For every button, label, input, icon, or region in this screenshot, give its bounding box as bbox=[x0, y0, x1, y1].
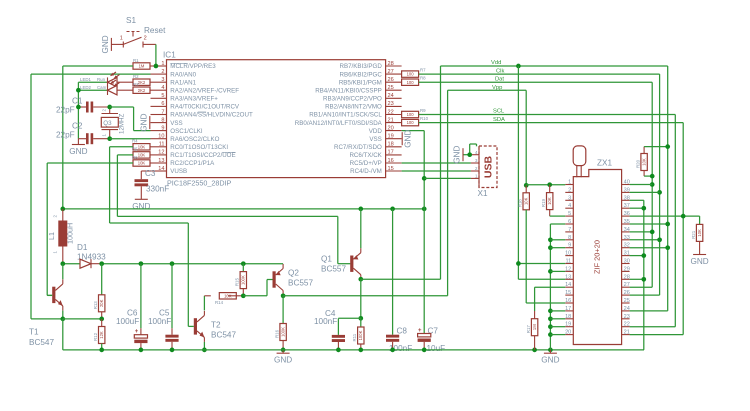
junction R19 top bbox=[547, 182, 552, 187]
svg-text:1: 1 bbox=[568, 180, 571, 186]
ground below R16 bbox=[274, 350, 292, 365]
wire main GND rail bbox=[63, 349, 644, 351]
ground below C3 bbox=[132, 199, 150, 211]
svg-text:5: 5 bbox=[161, 93, 164, 99]
wire emitter node down to GND rail bbox=[62, 319, 64, 350]
junction Q2 collector bbox=[281, 293, 286, 298]
resistor R14 10K bbox=[204, 293, 243, 305]
svg-text:13: 13 bbox=[565, 274, 571, 280]
svg-text:36: 36 bbox=[624, 211, 630, 217]
svg-text:GND: GND bbox=[404, 130, 413, 148]
wire ZIF pin33 Clk bbox=[630, 239, 660, 241]
junction gnd rail bbox=[139, 348, 144, 353]
inductor L1 100uH bbox=[47, 209, 75, 264]
junction gnd rail bbox=[390, 348, 395, 353]
transistor T1 BC547 bbox=[29, 264, 63, 347]
svg-text:X1: X1 bbox=[478, 189, 488, 198]
resistor R9 100 (SCL) bbox=[402, 108, 427, 118]
svg-text:21: 21 bbox=[388, 117, 394, 123]
junction gnd rail bbox=[422, 348, 427, 353]
svg-text:28: 28 bbox=[624, 274, 630, 280]
resistor R15 100K bbox=[235, 264, 247, 296]
svg-text:37: 37 bbox=[624, 203, 630, 209]
svg-text:VDD: VDD bbox=[369, 128, 383, 135]
svg-text:Reset: Reset bbox=[144, 26, 166, 35]
wire gnd bus to pin bbox=[550, 247, 565, 249]
wire T1 base stub bbox=[47, 294, 52, 296]
wire to Q2 base bbox=[243, 280, 272, 296]
wire T2 collector to R14 bbox=[203, 296, 205, 311]
svg-text:OSC1/CLKI: OSC1/CLKI bbox=[170, 128, 203, 135]
transistor Q1 BC557 bbox=[321, 248, 361, 279]
resistor R11 100K bbox=[352, 318, 364, 350]
junction Vdd pin35 bbox=[665, 222, 670, 227]
svg-text:17: 17 bbox=[565, 306, 571, 312]
svg-text:9: 9 bbox=[161, 125, 164, 131]
svg-text:1: 1 bbox=[120, 36, 123, 42]
svg-text:+: + bbox=[418, 328, 422, 334]
svg-text:27: 27 bbox=[624, 282, 630, 288]
svg-text:R14: R14 bbox=[215, 300, 224, 305]
svg-text:24: 24 bbox=[624, 306, 630, 312]
wire ZIF pin31 gnd bbox=[630, 255, 644, 257]
svg-text:RC2/CCP1/P1A: RC2/CCP1/P1A bbox=[170, 160, 215, 167]
wire emitter node to R13/R12 junction bbox=[63, 318, 102, 320]
capacitor C5 100nF bbox=[148, 264, 179, 350]
resistor R13 20K bbox=[93, 264, 105, 319]
wire ZIF pin39 to Clk bbox=[630, 191, 660, 193]
junction T2 emitter rail bbox=[202, 348, 207, 353]
resistor R21 10K to GND bbox=[691, 216, 703, 254]
svg-text:38: 38 bbox=[624, 195, 630, 201]
svg-text:27: 27 bbox=[388, 69, 394, 75]
svg-text:R19: R19 bbox=[541, 198, 546, 207]
wire net Vpp bridge bbox=[448, 90, 527, 185]
junction pin1 bbox=[154, 64, 159, 69]
svg-text:RB3/AN9/CCP2/VPO: RB3/AN9/CCP2/VPO bbox=[323, 96, 382, 103]
op-amp U? -- IC1 PIC18F2550 body bbox=[167, 60, 386, 178]
wire ZIF pin40 to Dat bbox=[630, 184, 653, 186]
svg-text:MCLR/VPP/RE3: MCLR/VPP/RE3 bbox=[170, 63, 216, 70]
svg-text:20K: 20K bbox=[99, 299, 104, 307]
capacitor C3 330nF at VUSB bbox=[135, 169, 170, 199]
wire RC1 pin12 to Q1 base bbox=[117, 155, 350, 264]
junction gnd rail bbox=[99, 348, 104, 353]
svg-text:10uF: 10uF bbox=[427, 344, 446, 353]
svg-text:20: 20 bbox=[388, 125, 394, 131]
svg-text:GND: GND bbox=[101, 35, 110, 53]
wire gnd bus to pin bbox=[550, 310, 565, 312]
junction USB shield bbox=[467, 152, 472, 157]
svg-text:26: 26 bbox=[388, 77, 394, 83]
capacitor C1 22pF bbox=[56, 97, 110, 115]
svg-text:12MHZ: 12MHZ bbox=[119, 113, 126, 134]
IC1 left pin stubs and numbers bbox=[151, 61, 253, 175]
svg-text:R9: R9 bbox=[420, 108, 426, 113]
junction R13/R12 bbox=[99, 317, 104, 322]
ground at VSS pin8 bbox=[139, 113, 150, 131]
svg-text:PIC18F2550_28DIP: PIC18F2550_28DIP bbox=[167, 179, 232, 188]
junction VDD pin20 rail bbox=[422, 207, 427, 212]
svg-text:39: 39 bbox=[624, 187, 630, 193]
wire gnd bus to pin bbox=[550, 239, 565, 241]
svg-text:RC0/T1OSO/T13CKI: RC0/T1OSO/T13CKI bbox=[170, 144, 228, 151]
svg-text:R6: R6 bbox=[132, 155, 138, 160]
wire crystal bottom to OSC2 pin10 bbox=[110, 138, 151, 140]
wire net Clk bbox=[419, 74, 660, 295]
junction Vdd pin11/13 bbox=[516, 261, 521, 266]
wire Q1 emitter to rail bbox=[360, 209, 362, 248]
junction gnd bus bbox=[548, 309, 553, 314]
resistor R18 10K (Vpp to ZIF16) bbox=[518, 185, 566, 303]
svg-text:Cam: Cam bbox=[97, 85, 107, 90]
ground at USB pin4 bbox=[453, 146, 464, 164]
junction gnd bus bbox=[548, 324, 553, 329]
ZIF left pin stubs and numbers bbox=[565, 180, 573, 336]
resistor R1 1M bbox=[133, 58, 151, 69]
svg-text:RC5/D+/VP: RC5/D+/VP bbox=[350, 160, 382, 167]
svg-text:RA4/T0CKI/C1OUT/RCV: RA4/T0CKI/C1OUT/RCV bbox=[170, 104, 240, 111]
svg-text:23: 23 bbox=[388, 101, 394, 107]
svg-text:22: 22 bbox=[388, 109, 394, 115]
svg-text:RA1/AN1: RA1/AN1 bbox=[170, 79, 196, 86]
resistor R7 100 (PGC) bbox=[402, 68, 427, 78]
svg-text:330nF: 330nF bbox=[146, 185, 169, 194]
svg-text:9: 9 bbox=[568, 243, 571, 249]
junction Q1 emitter rail bbox=[358, 207, 363, 212]
svg-text:R4: R4 bbox=[132, 139, 138, 144]
junction R16 gnd rail bbox=[281, 348, 286, 353]
svg-text:18: 18 bbox=[388, 142, 394, 148]
svg-text:R3: R3 bbox=[133, 82, 139, 87]
junction gnd rail bbox=[170, 348, 175, 353]
junction gnd rail bbox=[548, 348, 553, 353]
junction gnd rail bbox=[336, 348, 341, 353]
svg-text:11: 11 bbox=[159, 142, 165, 148]
wire gnd bus to pin bbox=[550, 270, 565, 272]
svg-text:15: 15 bbox=[565, 290, 571, 296]
socket ZX1 ZIF 20+20 body bbox=[573, 146, 621, 345]
connector X1 USB bbox=[471, 146, 497, 198]
svg-text:GND: GND bbox=[690, 257, 708, 266]
svg-text:4: 4 bbox=[568, 203, 571, 209]
svg-text:RB0/AN12/INT0/LFT0/SDI/SDA: RB0/AN12/INT0/LFT0/SDI/SDA bbox=[295, 120, 383, 127]
svg-text:USB: USB bbox=[483, 155, 495, 178]
svg-text:2K2: 2K2 bbox=[138, 88, 146, 93]
svg-text:Q1: Q1 bbox=[321, 255, 332, 264]
junction Vpp at ZIF pin1 bbox=[524, 183, 529, 188]
capacitor C6 100uF bbox=[116, 264, 148, 350]
svg-text:18: 18 bbox=[565, 314, 571, 320]
svg-text:8: 8 bbox=[161, 117, 164, 123]
junction Clk ZIF39 bbox=[657, 190, 662, 195]
svg-text:RA0/AN0: RA0/AN0 bbox=[170, 71, 196, 78]
svg-text:26: 26 bbox=[624, 290, 630, 296]
svg-text:R15: R15 bbox=[235, 277, 240, 286]
junction C8 rail bbox=[390, 207, 395, 212]
svg-text:40: 40 bbox=[624, 180, 630, 186]
svg-text:14: 14 bbox=[565, 282, 571, 288]
junction gnd bus pin37 bbox=[641, 206, 646, 211]
svg-text:28: 28 bbox=[388, 61, 394, 67]
junction gnd pin31 bbox=[641, 253, 646, 258]
svg-text:BC557: BC557 bbox=[321, 265, 346, 274]
capacitor C8 100nF bbox=[386, 209, 412, 353]
svg-text:LED2: LED2 bbox=[80, 85, 92, 90]
junction gnd rail bbox=[532, 348, 537, 353]
junction L1 top bbox=[60, 207, 65, 212]
svg-text:R13: R13 bbox=[93, 301, 98, 310]
ground below ZIF bbox=[541, 350, 559, 365]
junction R15 top bbox=[241, 261, 246, 266]
svg-text:2K2: 2K2 bbox=[138, 80, 146, 85]
resistor R8 100 (PGD) bbox=[402, 76, 427, 86]
svg-text:LED1: LED1 bbox=[80, 77, 92, 82]
IC1 right pin stubs and numbers bbox=[295, 61, 402, 175]
svg-text:SDA: SDA bbox=[493, 117, 505, 123]
svg-text:19: 19 bbox=[388, 134, 394, 140]
svg-text:RC1/T1OSI/CCP2/UOE: RC1/T1OSI/CCP2/UOE bbox=[170, 152, 235, 159]
wire RA0 pin2 to T1 emitter node bbox=[31, 74, 151, 319]
svg-text:100K: 100K bbox=[358, 330, 363, 340]
ZIF right pin stubs and numbers bbox=[622, 180, 630, 336]
svg-text:100uF: 100uF bbox=[116, 317, 139, 326]
resistor R12 12K bbox=[93, 319, 105, 350]
crystal Q3 12MHZ bbox=[101, 107, 125, 139]
junction gnd bus bbox=[548, 245, 553, 250]
svg-text:RA5/AN4/SS/HLVDIN/C2OUT: RA5/AN4/SS/HLVDIN/C2OUT bbox=[170, 112, 253, 119]
svg-text:IC1: IC1 bbox=[163, 51, 176, 60]
svg-text:GND: GND bbox=[453, 146, 462, 164]
svg-text:19: 19 bbox=[565, 322, 571, 328]
wire Vusb supply rail bbox=[63, 208, 424, 210]
svg-text:100nF: 100nF bbox=[314, 317, 337, 326]
svg-text:Q3: Q3 bbox=[103, 120, 112, 127]
svg-text:10: 10 bbox=[565, 251, 571, 257]
svg-text:32: 32 bbox=[624, 243, 630, 249]
wire RC2 pin13 to T1 base bbox=[47, 163, 133, 295]
resistor R10 100 (SDA) bbox=[402, 116, 429, 126]
svg-text:16: 16 bbox=[565, 298, 571, 304]
svg-text:21: 21 bbox=[624, 330, 630, 336]
svg-text:25: 25 bbox=[624, 298, 630, 304]
svg-text:10K: 10K bbox=[138, 161, 146, 166]
svg-text:12: 12 bbox=[158, 150, 164, 156]
svg-text:ZX1: ZX1 bbox=[597, 159, 612, 168]
svg-text:23: 23 bbox=[624, 314, 630, 320]
ground below C2 bbox=[69, 139, 87, 156]
svg-text:ZIF 20+20: ZIF 20+20 bbox=[593, 240, 602, 274]
wire ZIF pin14 to R17 bbox=[535, 287, 566, 311]
svg-text:T1: T1 bbox=[29, 328, 39, 337]
svg-text:C1: C1 bbox=[72, 97, 83, 106]
svg-text:VSS: VSS bbox=[170, 120, 182, 127]
junction C4 top node bbox=[358, 316, 363, 321]
svg-text:R1: R1 bbox=[133, 58, 139, 63]
junction gnd bus bbox=[548, 269, 553, 274]
wire Q1 collector to Vdd riser bbox=[361, 66, 441, 279]
svg-text:100nF: 100nF bbox=[148, 317, 171, 326]
svg-text:1: 1 bbox=[161, 61, 164, 67]
svg-text:10K: 10K bbox=[138, 153, 146, 158]
junction crystal top bbox=[107, 105, 112, 110]
svg-text:12: 12 bbox=[565, 266, 571, 272]
svg-text:T2: T2 bbox=[211, 321, 221, 330]
wire net Dat bbox=[419, 82, 653, 287]
svg-text:R11: R11 bbox=[352, 333, 357, 341]
ground at VSS pin19 bbox=[402, 130, 413, 148]
svg-text:RB4/AN11/KBI0/CSSPP: RB4/AN11/KBI0/CSSPP bbox=[315, 87, 382, 94]
svg-text:22: 22 bbox=[624, 322, 630, 328]
svg-text:16: 16 bbox=[388, 158, 394, 164]
svg-text:C8: C8 bbox=[397, 327, 408, 336]
svg-text:100: 100 bbox=[407, 120, 415, 125]
diode D1 1N4933 bbox=[63, 243, 106, 268]
svg-text:5: 5 bbox=[568, 211, 571, 217]
wire S1 to pin 1 bbox=[155, 44, 157, 66]
svg-text:BC557: BC557 bbox=[288, 279, 313, 288]
capacitor C2 22pF bbox=[56, 122, 110, 145]
svg-text:1M: 1M bbox=[139, 64, 145, 69]
resistor R20 10K pullup Dat to Vdd bbox=[636, 147, 668, 177]
svg-text:Clk: Clk bbox=[496, 68, 504, 74]
resistor R17 1M bbox=[526, 311, 538, 350]
svg-text:R12: R12 bbox=[93, 332, 98, 341]
junction gnd bus bbox=[548, 237, 553, 242]
svg-text:+: + bbox=[135, 329, 139, 335]
junction gnd pin28 bbox=[641, 277, 646, 282]
svg-text:100uH: 100uH bbox=[66, 223, 75, 244]
junction gnd rail bbox=[358, 348, 363, 353]
svg-text:14: 14 bbox=[158, 166, 164, 172]
ground below R21 bbox=[690, 255, 708, 267]
svg-text:11: 11 bbox=[565, 259, 571, 265]
svg-text:R8: R8 bbox=[420, 76, 426, 81]
junction D1 anode / L1 / T1 collector bbox=[60, 261, 65, 266]
wire RC0 pin11 to T2 base bbox=[110, 147, 194, 327]
LED2 Cam with resistor R3 2K2 bbox=[78, 80, 150, 95]
junction Q1 collector node bbox=[358, 277, 363, 282]
svg-text:VUSB: VUSB bbox=[170, 168, 187, 175]
svg-text:2: 2 bbox=[144, 36, 147, 42]
svg-text:VSS: VSS bbox=[369, 136, 381, 143]
LED1 Run with resistor R2 2K2 bbox=[78, 72, 150, 87]
svg-text:10K: 10K bbox=[697, 229, 702, 237]
svg-text:100K: 100K bbox=[241, 275, 246, 285]
transistor Q2 BC557 bbox=[273, 264, 314, 295]
svg-text:RC4/D-/VM: RC4/D-/VM bbox=[350, 168, 382, 175]
resistor R4 10K bbox=[132, 139, 151, 150]
svg-text:C3: C3 bbox=[145, 169, 156, 178]
svg-text:RA6/OSC2/CLKO: RA6/OSC2/CLKO bbox=[170, 136, 219, 143]
svg-text:RA3/AN3/VREF+: RA3/AN3/VREF+ bbox=[170, 96, 218, 103]
svg-text:R16: R16 bbox=[275, 329, 280, 338]
svg-text:22pF: 22pF bbox=[56, 131, 75, 140]
junction R14/R15/Q2 base bbox=[241, 293, 246, 298]
wire net Vdd bbox=[441, 66, 668, 311]
junction Clk pin33 bbox=[657, 237, 662, 242]
wire pin1 net to left and down bbox=[63, 66, 133, 209]
svg-text:GND: GND bbox=[541, 356, 559, 365]
svg-text:RB2/AN8/INT2/VMO: RB2/AN8/INT2/VMO bbox=[325, 104, 382, 111]
svg-text:17: 17 bbox=[388, 150, 394, 156]
junction crystal bottom bbox=[107, 136, 112, 141]
svg-text:10K: 10K bbox=[138, 144, 146, 149]
wire boost node row bbox=[102, 263, 283, 265]
wire D- pin15 to USB pin2 bbox=[402, 170, 471, 172]
svg-text:25: 25 bbox=[388, 85, 394, 91]
capacitor C7 10uF bbox=[418, 209, 446, 353]
wire ZIF pin35 Vdd bbox=[630, 223, 668, 225]
junction R20 bottom Dat bbox=[650, 174, 655, 179]
junction gnd bus bbox=[548, 316, 553, 321]
svg-text:22pF: 22pF bbox=[56, 106, 75, 115]
svg-text:8: 8 bbox=[568, 235, 571, 241]
wire Q1 collector down to C4/R11 bbox=[360, 279, 362, 318]
svg-text:RA2/AN2/VREF-/CVREF: RA2/AN2/VREF-/CVREF bbox=[170, 87, 239, 94]
svg-text:1M: 1M bbox=[532, 324, 537, 330]
junction Vdd drop bbox=[516, 64, 521, 69]
junction Dat pin34 bbox=[650, 230, 655, 235]
svg-text:10K: 10K bbox=[642, 158, 647, 166]
svg-text:D1: D1 bbox=[77, 243, 88, 252]
svg-text:Run: Run bbox=[97, 77, 106, 82]
wire ZIF pin38/37 to gnd bus bbox=[630, 200, 644, 350]
svg-text:RB7/KBI3/PGD: RB7/KBI3/PGD bbox=[339, 63, 382, 70]
svg-text:7: 7 bbox=[161, 109, 164, 115]
svg-text:30: 30 bbox=[624, 259, 630, 265]
wire net SCL bbox=[419, 115, 676, 327]
switch S1 Reset bbox=[111, 16, 166, 48]
junction Dat ZIF40 bbox=[650, 182, 655, 187]
svg-text:15: 15 bbox=[388, 166, 394, 172]
junction Vdd pin32 bbox=[665, 245, 670, 250]
svg-text:2: 2 bbox=[161, 69, 164, 75]
svg-text:C2: C2 bbox=[72, 122, 83, 131]
svg-text:Q2: Q2 bbox=[288, 269, 299, 278]
svg-text:6: 6 bbox=[568, 219, 571, 225]
svg-text:33: 33 bbox=[624, 235, 630, 241]
junction C5 top bbox=[170, 261, 175, 266]
wire ZIF pin28 gnd bbox=[630, 278, 644, 280]
svg-text:RC7/RX/DT/SDO: RC7/RX/DT/SDO bbox=[334, 144, 382, 151]
svg-text:20: 20 bbox=[565, 330, 571, 336]
wire ZIF pin6 GND bus bbox=[550, 224, 565, 350]
junction R13 top bbox=[99, 261, 104, 266]
svg-text:Vpp: Vpp bbox=[492, 85, 502, 91]
svg-text:BC547: BC547 bbox=[211, 331, 236, 340]
svg-text:RB5/KBI1/PGM: RB5/KBI1/PGM bbox=[339, 79, 382, 86]
wire gnd bus to pin bbox=[550, 326, 565, 328]
capacitor C4 100nF bbox=[314, 309, 361, 350]
svg-text:GND: GND bbox=[139, 113, 148, 131]
wire gnd bus to pin bbox=[550, 334, 565, 336]
svg-text:RB6/KBI2/PGC: RB6/KBI2/PGC bbox=[339, 71, 382, 78]
svg-text:6: 6 bbox=[161, 101, 164, 107]
svg-text:S1: S1 bbox=[126, 16, 136, 25]
resistor R5 10K bbox=[132, 147, 151, 158]
svg-text:35: 35 bbox=[624, 219, 630, 225]
wire VDD pin20 to rail/USB bbox=[402, 131, 425, 209]
ground at S1 bbox=[101, 35, 112, 53]
wire Q2 collector to Vpp riser bbox=[283, 90, 448, 295]
svg-text:31: 31 bbox=[624, 251, 630, 257]
wire ZIF pin32 Vdd bbox=[630, 247, 668, 249]
wire USB pin4 shield loop bbox=[463, 144, 477, 155]
svg-text:7: 7 bbox=[568, 227, 571, 233]
svg-text:R17: R17 bbox=[526, 325, 531, 334]
wire ZIF pin34 Dat bbox=[630, 231, 653, 233]
